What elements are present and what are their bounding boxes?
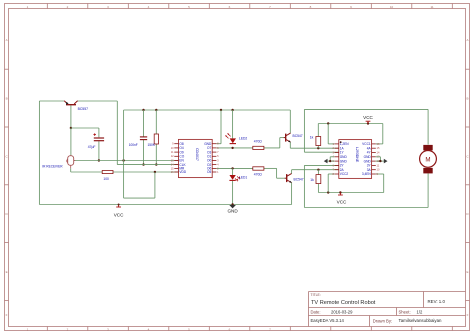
- node VCC2 tap: [327, 191, 329, 193]
- svg-text:GND: GND: [227, 209, 238, 214]
- svg-text:L293DNE: L293DNE: [355, 147, 359, 163]
- wire W2 to CD4017 CLK: [117, 164, 178, 166]
- IC U3 L293DNE: [339, 140, 372, 179]
- node LED1-GND junction: [231, 203, 233, 205]
- svg-text:470Ω: 470Ω: [254, 140, 263, 144]
- wire VCC1 top net: [317, 124, 319, 137]
- ground flag right of L293: [376, 156, 381, 158]
- svg-text:1k: 1k: [310, 135, 314, 139]
- svg-text:B: B: [466, 97, 468, 101]
- svg-text:BC557: BC557: [78, 107, 88, 111]
- wire mid branch down: [123, 110, 125, 198]
- svg-text:470Ω: 470Ω: [254, 173, 263, 177]
- capacitor C2 100nF: [140, 136, 147, 138]
- wire Q2 collector to rail: [289, 110, 291, 133]
- svg-text:3,4EN: 3,4EN: [362, 172, 372, 176]
- wire right edge of left box: [116, 101, 118, 165]
- VCC flag bottom-right: [339, 193, 341, 196]
- wire 1k-1 bottom: [317, 146, 319, 149]
- wire top-left VCC loop: [39, 100, 64, 102]
- svg-text:LED1: LED1: [239, 175, 247, 179]
- wire 1k-2 leads: [317, 170, 319, 175]
- GND flag under LED1: [229, 205, 236, 208]
- svg-text:O5: O5: [207, 170, 211, 174]
- svg-text:CD4017: CD4017: [195, 148, 199, 161]
- VCC flag bottom-left: [118, 205, 120, 208]
- wire motor bottom loop / 2Y: [304, 164, 338, 166]
- wire 470R-2 to Q3 base: [264, 167, 277, 169]
- wire to 47uF top: [71, 127, 99, 129]
- wire LED1 cathode to GND rail: [232, 181, 234, 205]
- wire base to IR receiver: [70, 128, 72, 156]
- wire receiver bottom pin to 100R: [70, 168, 72, 172]
- svg-text:11: 11: [430, 5, 433, 9]
- node rail-R2: [155, 109, 157, 111]
- LED1: [229, 175, 235, 180]
- wire O2 to LED1/470: [216, 167, 252, 169]
- wire 3,4EN: [376, 173, 384, 175]
- svg-text:A: A: [466, 38, 468, 42]
- node W1-branch junction: [122, 159, 124, 161]
- motor M1: [423, 145, 432, 151]
- svg-text:EasyEDA V5.3.14: EasyEDA V5.3.14: [311, 318, 345, 323]
- resistor R4 470R: [253, 167, 264, 170]
- wire 150K leads: [155, 110, 157, 134]
- svg-text:BC547: BC547: [294, 178, 304, 182]
- wire motor top loop: [304, 108, 428, 110]
- svg-text:VCC2: VCC2: [340, 172, 349, 176]
- node rail-GNDpin: [220, 109, 222, 111]
- wire LED1 anode: [232, 168, 234, 175]
- resistor R6 1k: [316, 175, 321, 184]
- svg-text:Date:: Date:: [311, 309, 321, 314]
- resistor R1 100: [102, 171, 113, 174]
- IC U1 CD4017 decade counter: [179, 139, 213, 177]
- wire 47uF bottom: [98, 141, 100, 160]
- node R5-1A junction: [317, 147, 319, 149]
- wire 470R-1 to Q2 base: [264, 147, 280, 149]
- svg-text:Drawn By:: Drawn By:: [373, 318, 392, 323]
- node rail-C2: [142, 109, 144, 111]
- node VCC bottom flag tap: [339, 191, 341, 193]
- svg-text:100nF: 100nF: [129, 143, 138, 147]
- capacitor C1 47uF: [94, 137, 104, 139]
- node 12EN tap: [327, 122, 329, 124]
- wire Q3 collector to 2A: [291, 170, 293, 174]
- transistor Q3 BC547: [286, 174, 288, 182]
- svg-text:100: 100: [103, 177, 109, 181]
- svg-text:REV: 1.0: REV: 1.0: [428, 299, 446, 304]
- node R6-2A junction: [317, 169, 319, 171]
- svg-text:TITLE:: TITLE:: [311, 293, 321, 297]
- node base-cap junction: [70, 127, 72, 129]
- svg-text:VCC: VCC: [363, 115, 373, 120]
- VCC flag top-right: [367, 121, 369, 123]
- svg-text:A: A: [6, 38, 8, 42]
- title block: [309, 291, 466, 293]
- svg-text:E: E: [466, 270, 468, 274]
- transistor Q1 BC557: [66, 104, 76, 106]
- node LED2 cathode junction: [231, 147, 233, 149]
- wire Q3 emitter down: [291, 183, 293, 205]
- svg-text:E: E: [6, 270, 8, 274]
- wire VCC bottom rail: [39, 204, 291, 206]
- svg-text:10: 10: [390, 5, 394, 9]
- svg-text:2016-03-29: 2016-03-29: [331, 309, 353, 314]
- node LED1 anode junction: [231, 167, 233, 169]
- wire W1 receiver OUT to CD4017 EN: [74, 160, 178, 162]
- svg-text:BC547: BC547: [293, 134, 303, 138]
- wire Q2 emitter to 1A: [289, 142, 291, 148]
- wire LED2 anode: [232, 110, 234, 138]
- wire VCC2 bottom net: [318, 192, 383, 194]
- svg-text:F: F: [6, 313, 8, 317]
- resistor R2 150K: [154, 134, 158, 144]
- wire Q1 base down: [70, 105, 72, 128]
- wire mid top rail: [124, 109, 291, 111]
- node 47uF-W1: [98, 159, 100, 161]
- transistor Q2 BC547: [285, 134, 287, 142]
- resistor R5 1k: [316, 137, 321, 146]
- svg-text:1/2: 1/2: [417, 309, 423, 314]
- svg-text:IR RECEIVER: IR RECEIVER: [42, 164, 63, 168]
- svg-text:150K: 150K: [148, 143, 156, 147]
- node rail-LED2: [231, 109, 233, 111]
- svg-text:47µF: 47µF: [88, 145, 96, 149]
- svg-text:1k: 1k: [310, 178, 314, 182]
- svg-text:F: F: [467, 313, 469, 317]
- wire 1,2EN: [327, 124, 329, 144]
- LED2: [230, 138, 236, 143]
- wire VCC2 pin: [328, 173, 334, 175]
- svg-text:B: B: [6, 97, 8, 101]
- wire CD4017 GND up to rail: [216, 143, 221, 145]
- wire 100nF leads: [143, 110, 145, 137]
- svg-text:VDD: VDD: [179, 170, 186, 174]
- svg-text:Sheet:: Sheet:: [399, 309, 411, 314]
- node VCC flag tap: [367, 122, 369, 124]
- svg-text:VCC: VCC: [337, 199, 347, 204]
- ground flag left of L293: [330, 156, 334, 158]
- wire O7 to LED2/470: [216, 147, 252, 149]
- wire 100R to CD4017 VDD: [113, 171, 179, 173]
- node W4 branch: [154, 171, 156, 173]
- svg-text:LED2: LED2: [239, 137, 247, 141]
- svg-text:Tamilselvansubbaiyan: Tamilselvansubbaiyan: [399, 318, 443, 323]
- svg-text:VCC: VCC: [114, 212, 124, 217]
- resistor R3 470R: [253, 146, 264, 149]
- svg-text:TV Remote Control Robot: TV Remote Control Robot: [311, 300, 376, 306]
- IR receiver U2: [68, 156, 74, 166]
- svg-text:M: M: [425, 156, 430, 163]
